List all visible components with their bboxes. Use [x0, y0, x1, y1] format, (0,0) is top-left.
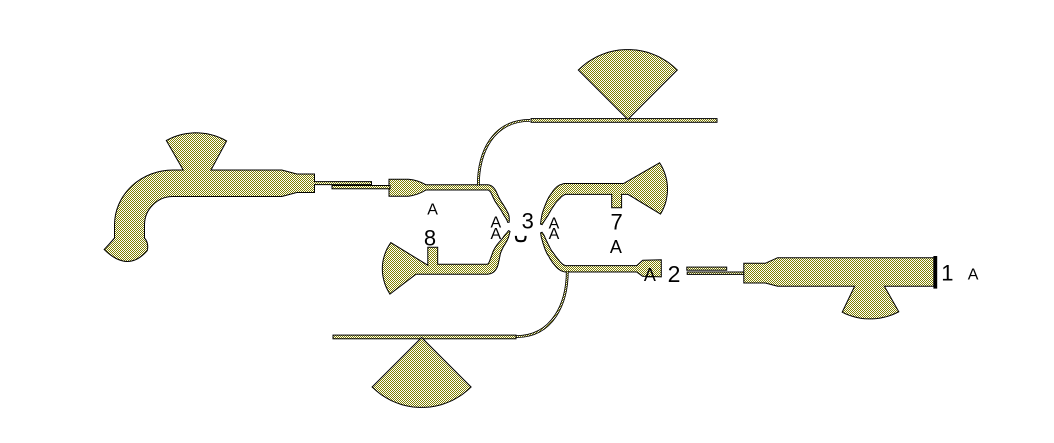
top radial stub on bias line [578, 50, 677, 120]
top bias line riser (thin curved line) [478, 120, 530, 186]
svg-text:2: 2 [668, 261, 681, 287]
lower coupled-gap line (left section) [332, 186, 390, 189]
upper-right branch: bent line from diode gap to radial stub 7 with tab [541, 163, 668, 225]
svg-text:A: A [968, 266, 979, 283]
lower coupled-gap line to port 1 taper [687, 272, 744, 274]
svg-text:3: 3 [522, 209, 534, 234]
svg-text:A: A [610, 237, 622, 257]
svg-text:A: A [427, 201, 438, 218]
left LO feed arm: curved microstrip with taper and series gap line [104, 133, 371, 262]
svg-text:1: 1 [941, 261, 953, 286]
svg-text:7: 7 [610, 210, 622, 235]
port 1 reference plane bar [933, 256, 937, 289]
bottom bias line riser (thin curved line) [516, 271, 567, 337]
svg-text:A: A [490, 226, 501, 243]
svg-text:A: A [644, 265, 656, 285]
svg-text:A: A [549, 226, 560, 243]
lower-right branch: bent line from diode gap to output taper 2 [541, 232, 662, 277]
lower-left branch: radial stub 8 with tab and bent line to diode gap [382, 231, 510, 295]
upper-left line: input taper and bent line to diode gap [389, 179, 509, 222]
top bias horizontal line [531, 119, 717, 123]
bottom bias horizontal line [333, 335, 516, 339]
diode bond wire symbol at gap center [516, 236, 526, 241]
bottom radial stub on bias line [372, 338, 471, 408]
svg-text:8: 8 [424, 226, 436, 251]
upper coupled-gap line (right section) [687, 267, 727, 270]
port 1 feed: taper, wide line and radial stub [744, 258, 934, 319]
